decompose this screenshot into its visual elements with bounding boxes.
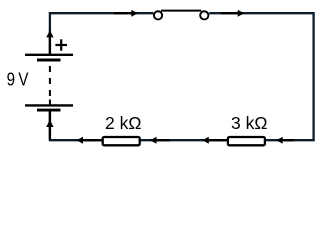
arrow current left (right of R1) xyxy=(150,137,170,144)
switch S1 left terminal xyxy=(154,11,162,19)
svg-text:V: V xyxy=(18,69,29,90)
arrow current up below battery xyxy=(46,110,53,140)
switch S1 right terminal xyxy=(200,11,208,19)
arrow current right before switch xyxy=(114,10,138,17)
arrow current left (corner side of R1) xyxy=(77,137,102,144)
arrow current left (right of R2) xyxy=(276,137,293,144)
wire: bottom run through resistors and up to battery negative terminal xyxy=(50,110,315,140)
battery B1 top cell long plate xyxy=(25,54,73,56)
wire: switch right terminal to top-right corner and down right side xyxy=(209,13,313,140)
svg-text:2 kΩ: 2 kΩ xyxy=(105,113,141,133)
battery B1 bottom cell long plate xyxy=(25,104,73,106)
battery B1 bottom cell short plate xyxy=(37,109,61,112)
battery dashed middle link xyxy=(49,66,51,106)
arrow current right after switch xyxy=(221,10,244,17)
wire: battery positive terminal up and along top to switch left terminal xyxy=(50,13,153,54)
arrow current left (left of R2) xyxy=(202,137,226,144)
svg-text:3 kΩ: 3 kΩ xyxy=(231,113,267,133)
battery B1 top cell short plate xyxy=(37,59,61,62)
svg-text:9: 9 xyxy=(7,69,15,90)
arrow current up into top-left corner xyxy=(46,30,53,54)
resistor R2 box xyxy=(228,137,265,145)
battery plus sign xyxy=(55,39,67,50)
resistor R1 box xyxy=(103,137,140,145)
switch S1 closed blade xyxy=(161,10,201,12)
